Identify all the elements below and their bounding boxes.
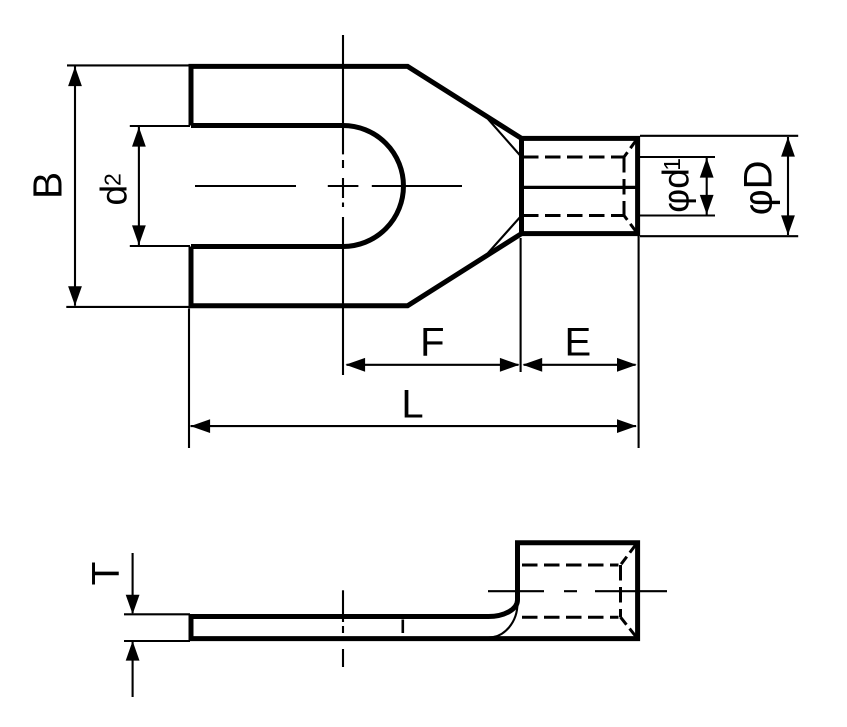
top view: barrel outline <box>522 138 638 233</box>
dimension B arrowheads <box>68 67 82 87</box>
dimension phi d1 arrowheads <box>700 158 714 178</box>
svg-text:2: 2 <box>100 173 126 186</box>
svg-text:B: B <box>24 172 70 199</box>
top view: taper inner thin lines <box>488 119 522 253</box>
svg-text:E: E <box>564 321 591 365</box>
dimension T arrowheads <box>126 595 140 615</box>
dimension L <box>189 309 636 449</box>
side view: inner bend thin curve <box>489 603 518 638</box>
dimension phi d1 extension lines <box>640 157 715 216</box>
dimension phi D arrowheads <box>781 137 795 157</box>
top view: horizontal centerline <box>195 185 462 187</box>
top view: vertical centerline <box>342 35 344 375</box>
top view: barrel seam line <box>522 186 638 189</box>
side view: vertical centerline <box>342 590 344 667</box>
dimension d2 extension lines <box>130 126 190 246</box>
side view: hidden slot end dash <box>401 620 404 634</box>
side view: barrel corner hidden dashes <box>621 545 636 636</box>
dimension phi D extension lines <box>640 136 798 236</box>
dimension d2 arrowheads <box>132 127 146 147</box>
svg-text:F: F <box>420 321 444 365</box>
side view: barrel hidden hole dashed lines <box>522 565 621 617</box>
dimension B extension lines <box>66 65 190 307</box>
svg-text:φD: φD <box>737 160 781 215</box>
svg-text:φd: φd <box>656 168 697 213</box>
svg-text:1: 1 <box>659 158 685 171</box>
svg-text:d: d <box>94 185 135 206</box>
svg-text:L: L <box>401 383 423 427</box>
dimension F <box>347 238 521 372</box>
svg-text:T: T <box>85 562 128 586</box>
top view: barrel hidden hole dashed lines <box>523 157 624 216</box>
dimension E <box>524 236 639 448</box>
side view: horizontal centerline <box>488 590 667 592</box>
side view: tongue and barrel outline <box>191 543 638 639</box>
top view: fork slot (U-shaped) <box>191 126 403 247</box>
dimension T extension lines <box>124 553 190 697</box>
top view: fork body outline <box>191 66 522 305</box>
top view: barrel corner hidden dashes <box>624 141 636 232</box>
